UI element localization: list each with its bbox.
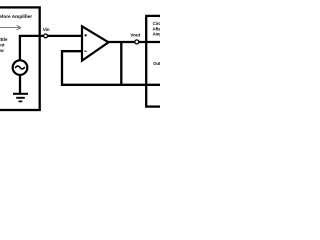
wire: source bottom to ground — [19, 75, 21, 93]
wire: inverting input + feedback left/bottom run — [62, 51, 160, 85]
wire: op-amp output to right box — [108, 41, 161, 43]
wire: feedback tap from output down to bottom rail — [120, 42, 122, 85]
ground — [13, 93, 28, 95]
svg-text:Vout: Vout — [130, 32, 140, 37]
svg-text:current: current — [0, 43, 5, 48]
svg-text:Vin: Vin — [43, 27, 50, 32]
svg-text:Ampl: Ampl — [153, 32, 160, 37]
node Vout — [135, 40, 139, 44]
svg-text:flow: flow — [0, 48, 4, 53]
AC source V1 — [13, 60, 28, 75]
box: Before Amplifier stage (left edge off-canvas) — [0, 7, 40, 110]
svg-text:Before Amplifier: Before Amplifier — [0, 14, 32, 19]
wire: source top corner to Vin line — [20, 36, 82, 60]
op-amp U1 — [82, 26, 109, 60]
svg-text:Out: Out — [153, 61, 160, 66]
box: Circuit After Amplifier stage (right edge off-canvas) — [146, 16, 176, 107]
svg-text:Very little: Very little — [0, 37, 8, 42]
op-amp + input marker — [85, 34, 87, 36]
node Vin — [44, 34, 48, 38]
op-amp - input marker — [84, 50, 86, 52]
annotation arrow — [0, 27, 20, 29]
